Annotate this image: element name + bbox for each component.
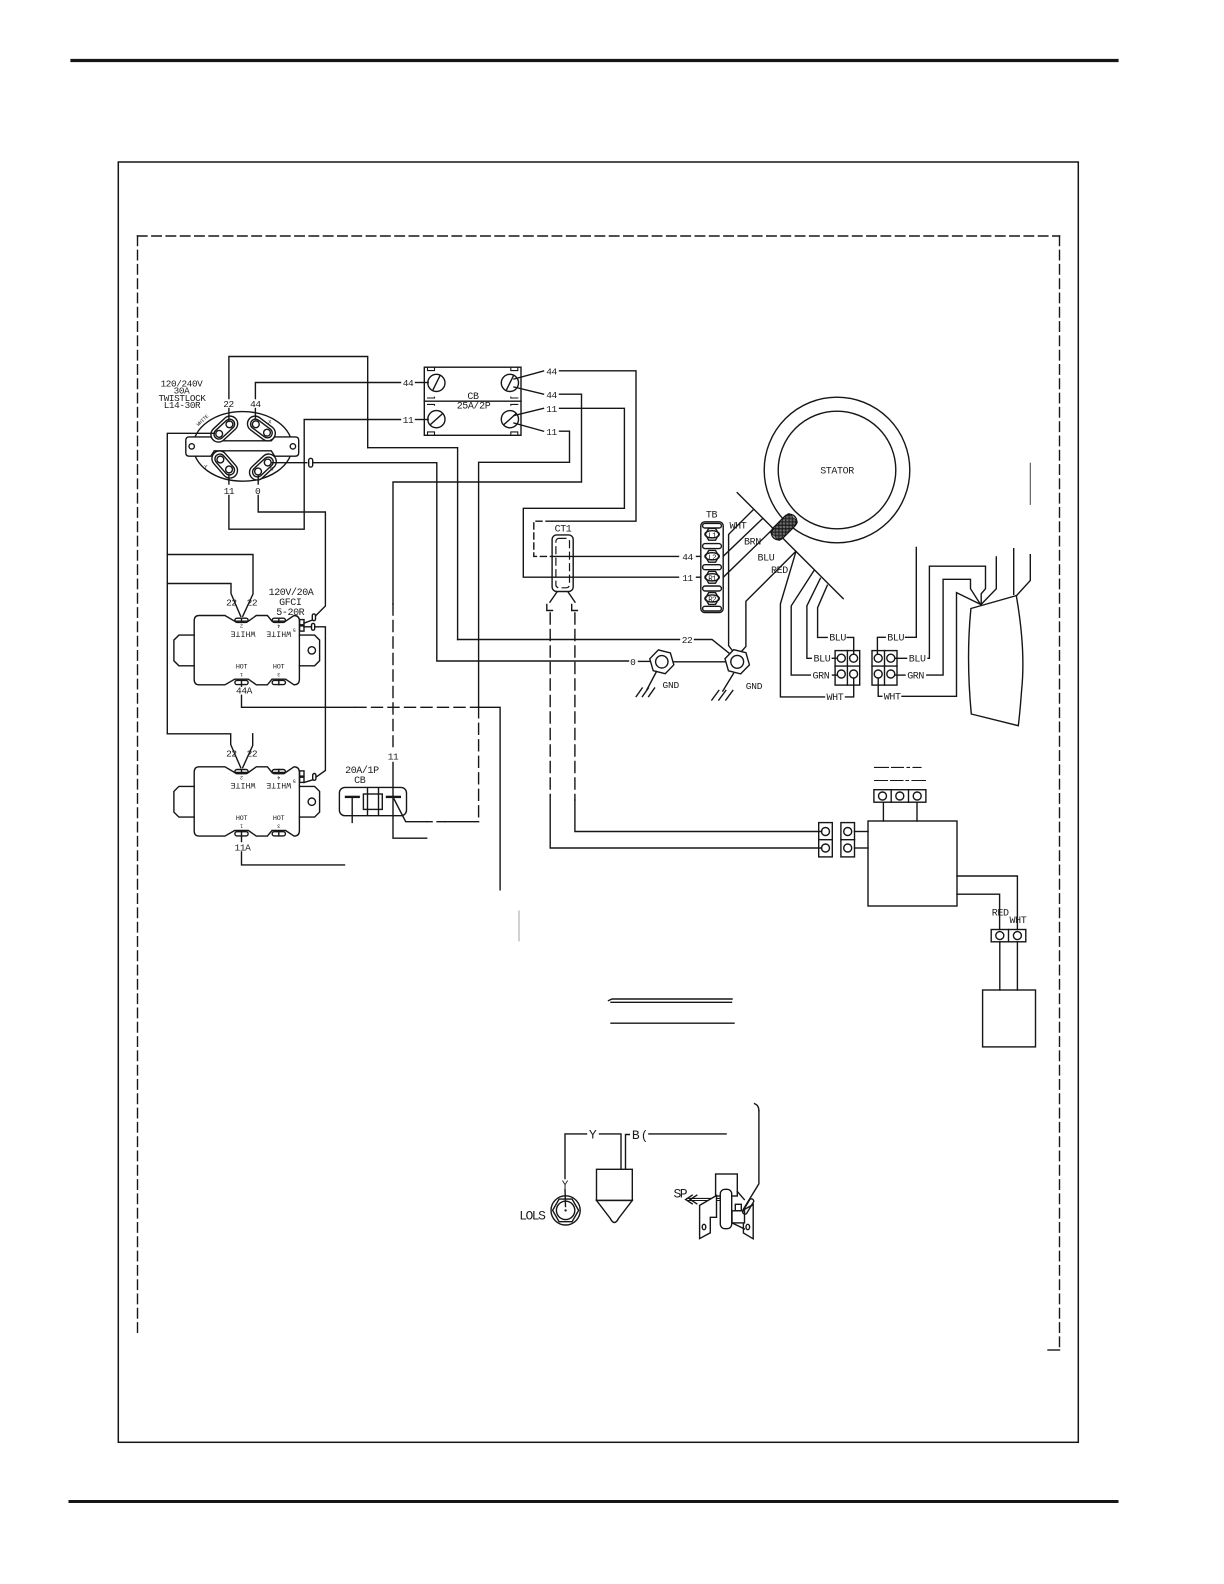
svg-text:HOT: HOT [273,815,285,823]
starter unit box [983,990,1036,1047]
GFCI1 terminal screw top-left (22) [235,618,248,622]
wire RED to starter unit [999,942,1001,990]
wire BLU into P1 [832,657,837,659]
svg-text:20A/1P: 20A/1P [345,765,379,777]
wire 44A dashed segment [355,706,479,708]
ignition coil T1 cone [597,1200,633,1222]
wire 44 dashed drop to CB2 [392,604,394,747]
GFCI1 bullet to side screw [304,620,313,623]
svg-text:11A: 11A [235,842,252,853]
wire 22 branch to GFCI1 terminal 2 (right) [167,555,253,617]
rotor lead 1 peel to connector P1 (WHT) [780,552,824,697]
svg-text:4: 4 [277,774,280,780]
stator lead bundle sleeve (hatched) [768,511,799,542]
wire 22 branch to GFCI2 terminal (left) [167,734,240,768]
wire 44 load-side diagonal upper [514,371,544,379]
svg-text:1: 1 [240,823,243,829]
CB 25A/2P mounting tick marks [428,367,518,435]
TB terminal R2 hex screw [705,593,719,605]
wire WHT to starter unit [1016,942,1018,990]
wire 44A from GFCI1 hot terminal [241,685,243,687]
wire 11 into CB1 [416,419,429,421]
wire 22 branch to GFCI2 terminal 2 (right) [243,734,253,768]
wire 44A to regulator drop [479,707,501,890]
J3 pins [879,792,922,800]
spark plug mid fitting small [735,1204,741,1211]
svg-text:44: 44 [682,552,693,563]
svg-text:WHT: WHT [730,522,747,533]
wire 0 stub from receptacle G right [271,462,307,464]
svg-text:44: 44 [403,378,414,389]
receptacle slot Y [209,448,241,481]
TB separator bottom [703,606,722,611]
svg-text:WHITE: WHITE [230,629,255,638]
TB terminal R1 hex screw [705,571,719,583]
svg-text:HOT: HOT [236,664,248,672]
svg-text:GRN: GRN [907,671,924,682]
wire 44 from receptacle X up [254,409,256,419]
wire 11 load-side diagonal lower [514,423,544,431]
panel dashed border bottom-right corner [1048,1349,1060,1351]
brush lead from stator 1 [981,557,996,605]
svg-text:22: 22 [682,635,693,646]
wire Y to ignition coil [600,1134,622,1169]
CT1 secondary lead left [550,592,557,602]
brush lead from stator 3 [1016,555,1030,596]
spark plug left bracket plate [700,1196,717,1239]
wire GRN row at P2 [895,674,905,676]
svg-text:RED: RED [992,909,1009,920]
svg-text:44: 44 [546,367,557,378]
svg-text:WHITE: WHITE [230,780,255,789]
svg-text:HOT: HOT [273,664,285,672]
wire 11 from receptacle Y down [228,475,230,485]
spark plug right bracket plate [743,1205,753,1239]
regulator connector J2 strip 2 [841,823,855,857]
GFCI1 line bullet lower [312,623,315,630]
panel dashed border left [137,236,139,1337]
wire 11 to CB1 line side [229,420,401,530]
wire BLU top stub upward [906,548,917,638]
CT1 left secondary wire dashed [549,613,551,795]
svg-text:G: G [270,465,273,472]
wire WHT to brush assembly [902,593,981,697]
wire neutral WHITE from receptacle to left bus [167,433,214,734]
connector P2 housing [872,651,897,686]
svg-text:11: 11 [403,415,414,426]
page footer rule [70,1500,1117,1503]
svg-text:44: 44 [250,399,261,410]
stator lead harness line [737,493,843,599]
GFCI1 side screw to lower bullet [304,626,311,628]
ground symbol GND2 lead [723,674,734,692]
wire 44A down and right [242,695,356,707]
CB screw terminal 4 (bottom-right) [501,411,518,428]
wire 11A down and right [242,852,345,865]
circuit breaker CB 25A/2P body [424,367,521,435]
CB2 left terminal bar [346,796,359,798]
LOLS wire into switch [564,1189,567,1207]
output connector J4 [991,930,1026,942]
LOLS hex body [553,1199,579,1222]
regulator top connector J3 [874,790,926,803]
ground symbol GND2 hatches [712,691,733,701]
svg-text:3: 3 [277,671,280,677]
TB separator 3 [703,586,722,591]
page header rule [72,59,1117,62]
CT1 lead hook right [572,605,578,611]
svg-text:5: 5 [293,778,296,784]
svg-text:GND: GND [746,681,763,692]
svg-text:11: 11 [546,427,557,438]
svg-text:WHITE: WHITE [266,629,291,638]
CT1 right secondary wire to regulator [575,800,822,832]
spark plug arrow shaft [688,1198,720,1200]
CB2 mechanism box [363,794,382,809]
receptacle J1 label 120/240V 30A TWISTLOCK L14-30R [158,379,206,411]
ground stud GND1 hex [647,648,676,675]
receptacle strap hole left [189,444,194,449]
CT1 inner window dashed [556,538,570,587]
svg-text:BLU: BLU [887,634,904,645]
svg-text:GND: GND [663,680,680,691]
CB2 left terminal stem [351,797,353,823]
wire 44 to CB1 line side [255,383,400,399]
spark plug bracket chamfer [737,1192,744,1200]
connector P1 housing [835,651,860,686]
svg-text:2: 2 [240,623,243,629]
GFCI1 terminal screw top-right [272,618,285,622]
wire kill lead right [649,1133,726,1135]
engine divider line upper b [611,1001,732,1003]
ground stud GND1 hole [656,656,668,668]
svg-text:WHT: WHT [1010,916,1027,927]
wire 11 load-side diagonal upper [514,408,544,415]
svg-text:11: 11 [388,751,399,762]
GFCI2 bullet to side screw [304,780,313,783]
wire 11 into CB2 lever [394,799,427,822]
svg-text:22: 22 [226,749,237,760]
ignition coil T1 body [597,1169,633,1200]
CB 25A/2P pole divider [424,400,521,402]
faint crease mark [518,911,520,941]
brush lead upper stub [1029,463,1031,504]
svg-text:STATOR: STATOR [820,466,854,477]
CT1 secondary lead right [568,592,575,602]
wire 22 branch to GFCI1 terminal (left) [167,584,240,617]
svg-text:44: 44 [546,390,557,401]
svg-text:22: 22 [247,597,258,608]
spark plug arrowhead chevrons [686,1195,697,1204]
wire 44 through CT1 to TB L2 [697,555,701,557]
wires J2 strip2 to regulator [855,832,869,849]
wire RED from regulator [957,894,1000,929]
svg-text:11: 11 [682,573,693,584]
wire BLU top into P1 [847,637,854,654]
wires J3 to regulator [883,802,917,821]
svg-text:R2: R2 [708,597,716,605]
wire WHT into P1 [846,678,854,697]
receptacle slot G (ground) [246,451,279,483]
wire 22 into ground stud [695,640,730,654]
wire 11 through CT1 to TB R1 [697,576,701,578]
GFCI2 line bullet [313,774,316,781]
drawing frame [118,162,1078,1442]
GFCI1 terminal screw bottom-left (44A) [235,680,248,684]
svg-text:CT1: CT1 [555,525,572,536]
svg-text:CB: CB [354,776,366,787]
wire 44 into CB1 [416,382,429,384]
panel dashed border top [138,235,1060,237]
svg-text:GRN: GRN [813,671,830,682]
circuit breaker CB2 label 20A/1P CB [345,765,379,787]
GFCI2 terminal screw bottom-right [272,832,285,836]
LOLS inner circle [556,1201,574,1219]
svg-text:(: ( [641,1130,649,1144]
kill wire terminal lug [742,1198,755,1215]
LOLS outer ring [551,1196,580,1225]
TB separator top [703,523,722,528]
GFCI1 body [194,616,299,685]
engine divider line lower [611,1022,734,1024]
wire BLU top at P2 [877,637,885,654]
receptacle slot X [244,413,278,444]
stator lead BRN to TB L2 [723,518,763,556]
wire 11 upper to CT loop [523,408,678,577]
svg-text:RED: RED [771,566,788,577]
CT1 lead hook left [547,605,553,611]
GFCI2 terminal screw top-left [235,770,248,774]
wire 11A from GFCI2 hot terminal [241,836,243,842]
connector P2 pins [874,654,895,678]
LOLS center dot [564,1209,566,1211]
svg-text:1: 1 [240,671,243,677]
svg-text:L1: L1 [708,532,717,540]
wire below CB2 to stub [393,797,427,838]
wire BLU row at P2 [895,657,907,659]
right bracket hole [746,1224,750,1229]
wire drop into CB2 terminal [392,763,394,798]
wire 11 dashed gap segment [427,821,445,823]
svg-text:BLU: BLU [814,655,831,666]
connector P1 pins [837,654,857,678]
svg-text:BLU: BLU [829,634,846,645]
svg-text:TB: TB [706,511,718,522]
brush holder assembly outline [969,596,1023,726]
GFCI1 right mounting tab [299,635,319,666]
wire WHT row at P2 [878,678,882,696]
svg-text:WHITE: WHITE [266,780,291,789]
GFCI1 terminal screw bottom-right [272,680,285,684]
dash-dot engine boundary marks [875,767,926,780]
engine divider line upper a [609,999,733,1001]
left bracket hole [702,1224,706,1229]
svg-text:5: 5 [293,626,296,632]
svg-text:LOLS: LOLS [519,1209,546,1224]
svg-text:L14-30R: L14-30R [164,400,201,411]
regulator connector J2 strip 1 [819,823,833,857]
wire 22 across to down bus [368,448,458,640]
svg-text:25A/2P: 25A/2P [457,401,491,413]
receptacle J1 body ellipse [193,412,292,482]
svg-text:4: 4 [277,623,280,629]
wire WHT from regulator [957,876,1017,930]
wire GRN into P1 [833,674,838,676]
receptacle J1 mounting strap [186,437,299,456]
spark plug mid fitting large [732,1211,745,1223]
svg-text:WHT: WHT [827,693,844,704]
wire Y from LOLS riser [565,1134,587,1179]
CT1 left secondary wire to regulator [550,795,821,848]
CB2 mechanism verticals [368,788,379,815]
panel dashed border right [1059,236,1061,1350]
ground symbol GND1 lead [647,672,657,690]
ground stud GND2 hole [731,655,744,668]
GFCI2 left mounting tab [174,786,194,817]
GFCI1 left mounting tab [174,635,194,666]
spark plug top bracket [716,1174,738,1196]
wire 44 lower feed to 20A breaker [393,394,582,604]
wire 44 through CT1 [552,555,679,557]
TB separator 2 [703,565,722,570]
ground symbol GND1 hatches [636,688,654,697]
svg-text:L2: L2 [708,554,716,562]
stator lead RED [741,551,796,652]
terminal block TB frame [701,522,723,613]
svg-text:22: 22 [226,597,237,608]
GFCI2 side screws [300,771,304,783]
wire 22 from receptacle W up [228,409,230,422]
CB 25A/2P label [457,392,491,412]
CB screw terminal 1 (top-left) [428,374,445,391]
svg-text:11: 11 [546,404,557,415]
kill wire drop [743,1111,759,1210]
TB separator 1 [703,544,722,549]
wire 0 down to GFCI1 line stub [258,496,325,616]
svg-text:22: 22 [223,399,234,410]
wire B from ignition coil [626,1135,630,1170]
circuit breaker CB2 20A/1P body [339,787,406,815]
wire 11 lower toward GFCI feed [479,431,570,707]
svg-text:BLU: BLU [909,655,926,666]
wire GRN to brush assembly [927,579,981,675]
stator lead BLU to TB R1 [723,529,773,577]
stator lead WHT [729,510,754,653]
wire 22 up and over to left bus [229,357,368,448]
wire 44 load upper to CT loop [552,371,636,521]
voltage regulator module VR1 [868,821,957,906]
GFCI receptacle 1 label 120V/20A GFCI 5-20R [269,587,314,619]
CB screw terminal 2 (top-right) [501,374,518,391]
GFCI receptacle 2 body [194,767,299,836]
stator inner circle [778,411,896,529]
svg-text:HOT: HOT [236,815,248,823]
GFCI1 tab hole [308,647,315,654]
rotor lead 3 peel to connector P1 (BLU) [807,578,821,658]
svg-text:3: 3 [277,823,280,829]
wire 0 from bullet to ground bus [313,463,629,661]
wire 11 to CB2 load side [445,821,479,823]
rotor lead 4 peel to connector P1 (BLU top) [818,585,828,637]
wire 0 into GND stud [639,660,650,662]
TB terminal L2 hex screw [705,550,719,562]
wire 44 load-side diagonal lower [514,387,544,394]
TB terminal L1 hex screw [705,528,719,540]
brush lead from stator 2 [1013,549,1015,595]
current transformer CT1 outer case [552,535,573,592]
wire 44 hidden jog dashed [534,521,552,556]
svg-text:BLU: BLU [758,554,775,565]
wire 22 toward ground stud [458,639,680,641]
wire BLU to brush assembly [928,566,986,658]
GFCI1 line bullet upper [312,614,315,621]
svg-text:0: 0 [630,657,636,668]
wire GND1 to GND2 [674,661,725,663]
kill wire hook [755,1104,759,1111]
receptacle strap hole right [290,444,295,449]
wire 0 from receptacle G down [257,476,259,485]
GFCI2 tab hole [308,798,315,805]
wire 11 dashed continuation down [478,707,480,822]
connector bullet 0 on G stub [309,458,313,467]
svg-text:WHT: WHT [884,693,901,704]
svg-text:22: 22 [247,749,258,760]
GFCI1 side screws [300,620,304,632]
ground stud GND2 hex [722,648,752,675]
svg-text:2: 2 [240,774,243,780]
spark plug cylinder [720,1189,731,1228]
rotor lead 2 peel to connector P1 (GRN) [791,571,814,675]
CB screw terminal 3 (bottom-left) [428,411,445,428]
svg-text:44A: 44A [236,686,253,697]
CT1 right secondary wire dashed [574,613,576,800]
wire from GFCI1 lower bullet to GFCI2 [315,627,326,777]
receptacle slot W (neutral, WHITE) [208,413,241,445]
spark plug mid fitting slant [732,1223,745,1229]
GFCI2 terminal screw top-right [272,770,285,774]
CB2 right terminal bar [387,796,400,798]
stator outer circle [764,397,910,543]
svg-text:R1: R1 [708,575,717,583]
GFCI2 right mounting tab [299,786,319,817]
GFCI2 terminal screw bottom-left (11A) [235,832,248,836]
